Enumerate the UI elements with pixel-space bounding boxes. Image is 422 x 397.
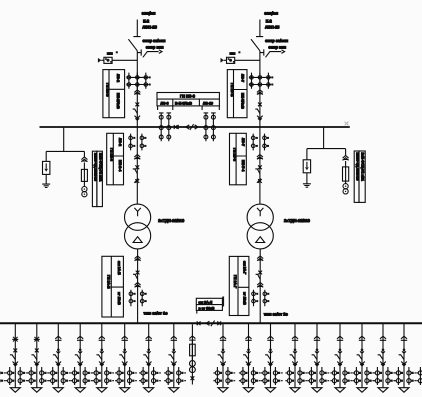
ground [303, 184, 311, 187]
contact arc [177, 125, 180, 129]
svg-text:ЛЭ-7: ЛЭ-7 [240, 74, 244, 82]
10kV feeder W08: breaker, disconnector, CTs, cable arrow [164, 324, 186, 392]
faint x at end of upper bus [345, 122, 349, 126]
fuse FU3 [190, 344, 196, 356]
svg-text:2хП-ФСЦ-У2 нВ1: 2хП-ФСЦ-У2 нВ1 [361, 153, 365, 182]
10kV feeder W11: breaker, disconnector, CTs, cable arrow [261, 324, 283, 392]
10kV feeder W05: breaker, disconnector, CTs, cable arrow [92, 324, 114, 392]
transformer bay 2 HV stack [251, 134, 269, 183]
svg-text:ВН-2-4: ВН-2-4 [118, 160, 122, 171]
wire to ground [45, 174, 47, 184]
VT disconnector QS6 [81, 157, 87, 162]
svg-text:2хТДН-10/110: 2хТДН-10/110 [158, 218, 185, 223]
svg-text:В-Н-3/4нВ: В-Н-3/4нВ [175, 101, 192, 105]
tie CT column TA4a [159, 113, 164, 141]
svg-text:ЛЭ-10: ЛЭ-10 [203, 101, 213, 105]
tie breaker blade [211, 321, 215, 327]
svg-text:2хТДН-10/110: 2хТДН-10/110 [284, 218, 311, 223]
bus tie disconnector QS8 [197, 321, 201, 325]
fuse FU1 [81, 169, 87, 181]
transformer bay panels lower [102, 256, 124, 317]
svg-text:тшп за/от 2с: тшп за/от 2с [264, 311, 289, 316]
tie open arrow contact [206, 321, 209, 325]
transformer T1 LV stack [129, 249, 147, 323]
svg-text:2хП-ФСЦ-У2 нВ1: 2хП-ФСЦ-У2 нВ1 [99, 153, 103, 182]
tie CT column TA4b [167, 113, 172, 141]
10kV feeder W09: breaker, disconnector, CTs, cable arrow [213, 324, 235, 392]
surge arrester F2 [303, 160, 310, 173]
tie open contact right [195, 125, 198, 129]
10kV feeder W10: breaker, disconnector, CTs, cable arrow [239, 324, 261, 392]
ground [42, 184, 50, 187]
bus tie disconnector QS9 [217, 321, 221, 325]
bus voltage transformer TV3 [190, 361, 196, 367]
wire [345, 161, 347, 167]
wire [83, 163, 85, 170]
svg-text:зш 2А-Г: зш 2А-Г [243, 261, 247, 274]
fuse FU2 [343, 167, 349, 181]
earthing disconnector [191, 376, 195, 380]
wire to ground [306, 173, 308, 184]
tie CT column TA5a [204, 113, 209, 141]
wire to arrester [306, 149, 308, 160]
10kV feeder W16: breaker, disconnector, CTs, cable arrow [373, 324, 395, 392]
VT bay right labels [354, 151, 365, 202]
svg-text:вг 10кВ: вг 10кВ [243, 292, 247, 305]
partial feeder left edge [0, 367, 6, 385]
svg-text:ГН Н6-3: ГН Н6-3 [180, 94, 196, 99]
wire to arrester [45, 151, 47, 161]
VT bay left labels [92, 151, 102, 206]
svg-text:ВН-7/4нВ: ВН-7/4нВ [240, 93, 244, 109]
svg-text:ВН-7-4: ВН-7-4 [241, 160, 245, 171]
bus tie panel [157, 93, 219, 111]
section disconnector QS10 [174, 125, 178, 129]
transformer bay 1 HV stack [129, 134, 147, 183]
incoming panel right [227, 70, 251, 118]
svg-text:ГН Н2-3: ГН Н2-3 [110, 148, 114, 161]
wire to VT disconnector [83, 151, 85, 157]
svg-text:ГН Н7-3: ГН Н7-3 [232, 148, 236, 161]
10kV feeder W01: breaker, disconnector, CTs, cable arrow [6, 324, 28, 392]
10kV feeder W14: breaker, disconnector, CTs, cable arrow [330, 324, 352, 392]
VT disconnector QS7 [343, 156, 349, 161]
wire from bus W1 to VT bay 2 [307, 127, 346, 149]
transformer T2 LV stack [252, 249, 270, 323]
tie open contact left [186, 125, 189, 129]
svg-text:зш 2А-Б: зш 2А-Б [117, 261, 121, 275]
10kV feeder W15: breaker, disconnector, CTs, cable arrow [352, 324, 374, 392]
upper 110kV busbar W1 [40, 126, 350, 128]
surge arrester F1 [43, 161, 50, 174]
wire to VT disconnector [345, 149, 347, 156]
tie breaker blade [190, 124, 194, 130]
10kV feeder W13: breaker, disconnector, CTs, cable arrow [307, 324, 329, 392]
svg-text:ЛЭ-3: ЛЭ-3 [161, 101, 169, 105]
10kV feeder W02: breaker, disconnector, CTs, cable arrow [27, 324, 49, 392]
incoming line bay 2 (right) [221, 11, 289, 205]
voltage transformer TV2 [343, 184, 348, 189]
svg-text:2хЛЭ-4Д ЛЭН-2с: 2хЛЭ-4Д ЛЭН-2с [356, 153, 360, 181]
transformer bay panels upper [107, 133, 124, 185]
wire from bus W1 to VT bay 1 [46, 127, 84, 151]
svg-text:ВН-2/4нВ: ВН-2/4нВ [116, 93, 120, 109]
svg-text:ГН 2А-Г: ГН 2А-Г [233, 275, 237, 288]
svg-text:вг 10кВ: вг 10кВ [117, 292, 121, 305]
10kV feeder W03: breaker, disconnector, CTs, cable arrow [49, 324, 71, 392]
svg-text:тшп за/от 1с: тшп за/от 1с [144, 311, 169, 316]
svg-text:ЛЭ-7: ЛЭ-7 [241, 138, 245, 146]
drawout contact [189, 336, 195, 340]
10kV feeder W06: breaker, disconnector, CTs, cable arrow [115, 324, 137, 392]
svg-text:2хЛЭ-4Д ЛЭН-1с: 2хЛЭ-4Д ЛЭН-1с [94, 153, 98, 181]
svg-text:ЛЭ-2: ЛЭ-2 [118, 138, 122, 146]
voltage transformer TV1 [82, 187, 87, 192]
transformer T1 [125, 204, 151, 249]
10kV feeder W12: breaker, disconnector, CTs, cable arrow [285, 324, 307, 392]
tie CT column TA5b [211, 113, 216, 141]
wire bus VT feeder [191, 324, 193, 384]
partial feeder right edge [416, 367, 422, 385]
svg-text:ГН 2А-Б: ГН 2А-Б [106, 275, 110, 289]
svg-text:ЛЭ-2: ЛЭ-2 [116, 74, 120, 82]
lower bus tie label box [196, 297, 224, 314]
10kV feeder W04: breaker, disconnector, CTs, cable arrow [71, 324, 93, 392]
svg-text:ГН Н2-Б: ГН Н2-Б [106, 83, 110, 97]
incoming line bay 1 (left) [98, 11, 166, 205]
svg-text:зш 2А-Л: зш 2А-Л [199, 300, 213, 304]
lower 10kV busbar W2 [0, 322, 422, 324]
svg-text:в вг 10кВ: в вг 10кВ [199, 307, 215, 311]
10kV feeder W17: breaker, disconnector, CTs, cable arrow [394, 324, 416, 392]
10kV feeder W07: breaker, disconnector, CTs, cable arrow [139, 324, 161, 392]
incoming panel left [103, 70, 128, 118]
transformer T2 [247, 204, 273, 249]
svg-text:ГН Н7-Б: ГН Н7-Б [230, 83, 234, 97]
